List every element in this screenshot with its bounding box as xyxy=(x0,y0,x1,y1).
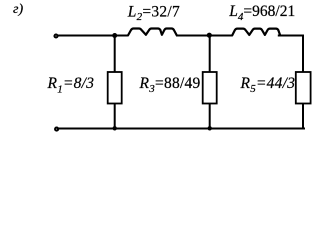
svg-text:г): г) xyxy=(13,2,23,17)
svg-text:R5=44/3: R5=44/3 xyxy=(240,75,296,95)
svg-text:L4=968/21: L4=968/21 xyxy=(228,3,295,23)
svg-text:R3=88/49: R3=88/49 xyxy=(139,75,201,95)
svg-text:L2=32/7: L2=32/7 xyxy=(127,4,180,23)
svg-text:R1=8/3: R1=8/3 xyxy=(47,75,95,96)
